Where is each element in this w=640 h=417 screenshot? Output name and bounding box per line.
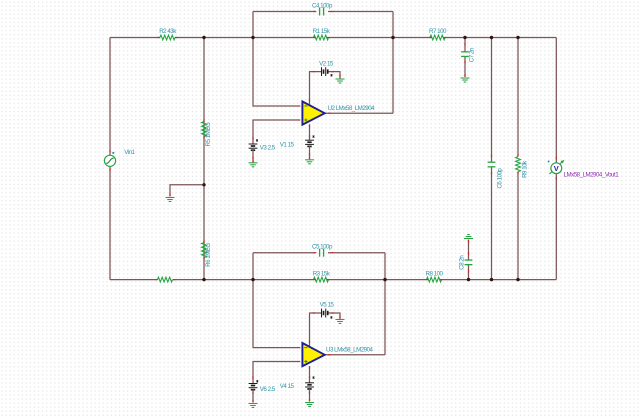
svg-text:U2 LMx58_LM2904: U2 LMx58_LM2904 [328, 105, 376, 112]
wire: top rail from Vin1 corner to R2 left [110, 37, 160, 39]
ground G5 (C7) [461, 77, 470, 79]
wire: C5 feedback rail right segment [328, 252, 385, 254]
capacitor C5 (100p) horizontal [319, 249, 321, 257]
svg-text:V6 2.5: V6 2.5 [260, 386, 276, 393]
capacitor C4 (100p) horizontal [319, 8, 321, 16]
resistor R7 (100) [430, 35, 445, 40]
wire: bottom rail from Vin1 corner to R4 left [110, 279, 157, 281]
resistor R1 (15k) [314, 35, 329, 40]
junction: bottom rail at R9 [516, 278, 519, 281]
source Vin1 (sine) circle [104, 155, 115, 166]
svg-text:R3 15k: R3 15k [313, 270, 331, 277]
wire: bottom rail R4 right to R3 left [173, 279, 314, 281]
junction: top rail at C6 [490, 36, 493, 39]
polarity mark of V2 [331, 74, 333, 76]
wire: feedback-right vertical from C4 rail down to U2 output [392, 12, 394, 114]
resistor R5 (1MEG) vertical [202, 122, 207, 137]
svg-text:C6 100p: C6 100p [497, 168, 504, 189]
svg-text:Vin1: Vin1 [124, 149, 135, 156]
junction: top rail at R9 [516, 36, 519, 39]
wire: C7 bottom plate to ground G5 [464, 57, 466, 78]
ground G8 (V4) [305, 402, 314, 404]
svg-text:C5 100p: C5 100p [312, 243, 333, 250]
wire: feedback-right vertical from C5 rail down to U3 output [384, 253, 386, 355]
voltmeter VM1 needle arrow [550, 161, 563, 174]
svg-text:V2 15: V2 15 [319, 61, 334, 68]
pin ticks of R2 [157, 37, 160, 39]
pin ticks of V6 [252, 376, 254, 379]
wire: bottom rail R3 right to R8 left [329, 279, 427, 281]
svg-text:C7 2n: C7 2n [469, 47, 476, 62]
polarity mark of V6 [256, 380, 258, 382]
wire: U2 output to feedback-right vertical [325, 112, 393, 114]
op-amp U2 LMx58_LM2904 triangle [302, 102, 324, 125]
svg-text:C8 2n: C8 2n [459, 255, 466, 270]
resistor R9 (10k) vertical [516, 157, 521, 172]
resistor R3 (15k) [314, 277, 329, 282]
svg-text:V4 15: V4 15 [280, 383, 295, 390]
junction: top rail at R5 chain [202, 36, 205, 39]
wire: C6 vertical from top rail to top plate [491, 38, 493, 163]
pin ticks of U3 [298, 347, 301, 349]
svg-text:V5 15: V5 15 [320, 302, 335, 309]
pin ticks of Vin1 [109, 150, 111, 153]
battery V1 (15) vertical [305, 139, 314, 141]
wire: V1 bottom to ground G3 [309, 146, 311, 159]
capacitor C6 (100p) vertical [488, 161, 496, 163]
pin ticks of R8 [426, 279, 429, 281]
polarity mark of voltmeter [548, 161, 550, 163]
svg-text:V3 2.5: V3 2.5 [260, 144, 276, 151]
wire: V5 right terminal to ground G7 [328, 313, 340, 319]
ground G9 (V6) [249, 403, 258, 405]
junction: top rail at feedback-left vertical [251, 36, 254, 39]
wire: C5 feedback rail left segment [253, 252, 315, 254]
junction: bottom rail at U3 output vertical [383, 278, 386, 281]
junction: R5/R6 chain at ground tap [202, 183, 205, 186]
ground G6 (C8, inverted) [464, 238, 473, 240]
wire: V3 bottom to ground G4 [252, 150, 254, 162]
wire: R5/R6 chain vertical ground tap to bottom rail [203, 185, 205, 280]
capacitor C7 (2n) vertical [461, 51, 469, 53]
polarity mark of V3 [256, 140, 258, 142]
wire: C8 top plate up to ground G6 [468, 240, 470, 260]
junction: bottom rail at feedback-left vertical [251, 278, 254, 281]
pin ticks of U2 [298, 105, 301, 107]
polarity mark of V4 [313, 377, 315, 379]
wire: right vertical from top rail to voltmeter [555, 38, 557, 164]
pin ticks of C8 [468, 270, 470, 273]
wire: C7 top rail to top plate [464, 38, 466, 52]
pin ticks of C6 [491, 155, 493, 158]
sine glyph inside Vin1 [106, 158, 114, 163]
wire: bottom rail R8 right to right corner [442, 279, 557, 281]
svg-text:V: V [554, 164, 559, 173]
wire: right vertical from voltmeter to bottom rail [555, 174, 557, 280]
battery V6 (2.5) vertical [249, 383, 258, 385]
wire: C6 vertical from bottom plate to bottom rail [491, 167, 493, 280]
polarity mark of V1 [313, 136, 315, 138]
wire: feedback-left vertical from C4 rail down to U2 inverting input [253, 12, 298, 107]
wire: R5/R6 chain vertical top rail to ground tap [203, 38, 205, 185]
svg-text:C4 100p: C4 100p [312, 3, 333, 10]
pin ticks of V1 [309, 135, 311, 138]
pin tick at ground G1 [169, 193, 171, 196]
pin ticks of R7 [429, 37, 432, 39]
svg-text:R5 1MEG: R5 1MEG [205, 122, 212, 146]
svg-text:R1 15k: R1 15k [313, 28, 331, 35]
pin ticks of C4 [314, 11, 317, 13]
wire: C4 feedback rail left segment [253, 11, 315, 13]
pin ticks of R1 [313, 37, 316, 39]
wire: C4 feedback rail right segment [328, 11, 393, 13]
svg-text:V1 15: V1 15 [280, 141, 295, 148]
battery V2 (15) horizontal [321, 67, 323, 76]
wire: left vertical through Vin1 from top rail to bottom rail [109, 38, 111, 280]
svg-text:R7 100: R7 100 [429, 28, 447, 35]
junction: bottom rail at C8 [467, 278, 470, 281]
voltmeter VM1 circle [551, 163, 562, 174]
ground G4 (V3) [249, 162, 258, 164]
svg-text:R9 10k: R9 10k [522, 160, 529, 178]
resistor R6 (1MEG) vertical [202, 243, 207, 258]
wire: U3 non-inverting input to V6 positive terminal [253, 362, 298, 384]
polarity mark of V5 [331, 317, 333, 319]
capacitor C8 (2n) vertical [465, 259, 473, 261]
wire: V2 left terminal to U2 V+ pin [310, 72, 322, 106]
pin ticks of R3 [313, 279, 316, 281]
resistor R8 (100) [427, 277, 442, 282]
pin ticks of C7 [464, 43, 466, 46]
pin ticks of V3 [252, 137, 254, 140]
wire: V2 right terminal to ground G2 [328, 72, 340, 79]
wire: ground tap from chain junction to ground G1 [170, 185, 204, 197]
pin ticks of C5 [314, 252, 317, 254]
wire: top rail R1 right to R7 left (output net) [329, 37, 430, 39]
wire: R9 vertical from top rail to resistor [517, 38, 519, 157]
U2 plus sign [304, 119, 307, 121]
battery V5 (15) horizontal [321, 309, 323, 318]
resistor R4 (43k) [158, 277, 173, 282]
junction: bottom rail at C6 [490, 278, 493, 281]
battery V4 (15) vertical [305, 382, 314, 384]
wire: U2 non-inverting input to V3 positive terminal [253, 120, 298, 144]
resistor R2 (43k) [160, 35, 175, 40]
op-amp U3 LMx58_LM2904 triangle [302, 343, 324, 366]
pin ticks of V2 [313, 71, 316, 73]
ground G7 (V5) [336, 319, 345, 321]
junction: bottom rail at R6 chain [202, 278, 205, 281]
wire: top rail R7 right to right corner [445, 37, 556, 39]
wire: C8 bottom rail up to bottom plate [468, 265, 470, 280]
wire: V6 bottom to ground G9 [252, 390, 254, 403]
battery V3 (2.5) vertical [249, 143, 258, 145]
pin ticks of voltmeter [555, 157, 557, 160]
wire: U2 V- pin down to V1 [309, 125, 311, 141]
polarity mark of Vin1 [112, 152, 114, 154]
U2 minus sign [304, 105, 307, 107]
svg-text:R2 43k: R2 43k [159, 28, 177, 35]
junction: top rail at U2 output / R7 [391, 36, 394, 39]
pin ticks of R5 [203, 119, 205, 122]
pin ticks of R9 [517, 154, 519, 157]
pin ticks of V5 [313, 312, 316, 314]
wire: V5 left terminal to U3 V+ pin [310, 313, 322, 347]
wire: U3 V- pin down to V4 [309, 366, 311, 383]
U3 minus sign [304, 347, 307, 349]
wire: V4 bottom to ground G8 [309, 389, 311, 402]
svg-text:LMx58_LM2904_Vout1: LMx58_LM2904_Vout1 [564, 172, 620, 179]
svg-text:R8 100: R8 100 [426, 270, 444, 277]
pin ticks of V4 [309, 376, 311, 379]
wire: R9 vertical from resistor to bottom rail [517, 172, 519, 280]
junction: top rail at C7 [463, 36, 466, 39]
ground G3 (V1) [305, 159, 314, 161]
ground G2 (V2) [336, 78, 345, 80]
wire: feedback-left vertical from C5 rail down to U3 inverting input [253, 253, 298, 348]
ground G1 (R5/R6 midpoint) [166, 197, 175, 199]
pin ticks of R4 [155, 279, 158, 281]
U3 plus sign [304, 361, 307, 363]
pin ticks of R6 [203, 240, 205, 243]
svg-text:R6 1MEG: R6 1MEG [205, 242, 212, 266]
wire: U3 output to feedback-right vertical [325, 354, 385, 356]
svg-text:U3 LMx58_LM2904: U3 LMx58_LM2904 [326, 347, 374, 354]
wire: top rail R2 right to R1 left (input net) [175, 37, 314, 39]
